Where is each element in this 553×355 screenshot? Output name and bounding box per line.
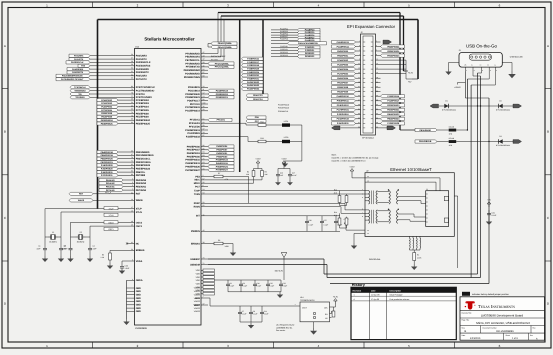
svg-text:41: 41 bbox=[131, 241, 133, 244]
svg-text:50: 50 bbox=[203, 201, 205, 204]
wire VDD bus bbox=[214, 279, 281, 281]
svg-text:VDD33: VDD33 bbox=[194, 307, 200, 310]
MCU port B pins bbox=[97, 150, 154, 178]
svg-text:PC5EPI0S3: PC5EPI0S3 bbox=[337, 63, 349, 66]
svg-text:PH1EPI0S7: PH1EPI0S7 bbox=[216, 149, 228, 152]
svg-text:PB0USB0ID: PB0USB0ID bbox=[419, 129, 431, 132]
wire bus vertical D bbox=[239, 20, 241, 173]
svg-text:PJ0EPI0S16: PJ0EPI0S16 bbox=[247, 58, 260, 61]
svg-text:R1: R1 bbox=[417, 254, 419, 257]
svg-text:36: 36 bbox=[203, 105, 205, 108]
svg-text:GND: GND bbox=[136, 304, 141, 307]
svg-text:PWRDN: PWRDN bbox=[191, 230, 200, 233]
wire choke1 to RJ45 bbox=[398, 196, 426, 203]
svg-text:GND: GND bbox=[136, 297, 141, 300]
svg-text:+3.3V: +3.3V bbox=[281, 158, 287, 161]
svg-text:PH6/EPI0S26: PH6/EPI0S26 bbox=[185, 165, 200, 168]
svg-text:98: 98 bbox=[203, 75, 205, 78]
svg-text:LM3S9B96: LM3S9B96 bbox=[135, 327, 147, 330]
wire USB shield left bbox=[449, 63, 460, 70]
svg-text:PC4/EPI0S2: PC4/EPI0S2 bbox=[136, 99, 150, 102]
svg-text:0.1UF: 0.1UF bbox=[257, 285, 262, 288]
svg-text:70: 70 bbox=[203, 257, 205, 260]
svg-text:R10: R10 bbox=[334, 189, 337, 192]
power flag MA+3.3V bbox=[275, 253, 287, 281]
decoupling capacitors C6 C8 C10 C12 C13 bbox=[226, 280, 287, 292]
resistor R13 bbox=[208, 137, 282, 143]
grid column numbers bottom bbox=[46, 344, 501, 348]
svg-text:2.2UF: 2.2UF bbox=[283, 285, 288, 288]
ground USB right bbox=[508, 71, 516, 78]
wire RX pair to ethernet bbox=[208, 203, 365, 213]
svg-text:PH1EPI0S7: PH1EPI0S7 bbox=[337, 81, 349, 84]
svg-text:97: 97 bbox=[203, 71, 205, 74]
svg-text:PE6/MII0CRS: PE6/MII0CRS bbox=[185, 56, 200, 59]
wire MDC bbox=[208, 179, 262, 181]
net flag cluster above EPI bbox=[271, 27, 320, 42]
net flags EPI right top bbox=[381, 45, 405, 57]
svg-text:PF4/MII0RXD: PF4/MII0RXD bbox=[185, 62, 200, 65]
svg-text:PI6A/AC9/USBEPI29: PI6A/AC9/USBEPI29 bbox=[298, 42, 319, 45]
wire risers to top bus bbox=[208, 13, 224, 61]
svg-text:GND: GND bbox=[136, 307, 141, 310]
svg-text:PH3EPI0S0: PH3EPI0S0 bbox=[216, 155, 228, 158]
svg-text:PH2EPI0S1: PH2EPI0S1 bbox=[216, 152, 228, 155]
svg-text:B: B bbox=[4, 130, 6, 134]
svg-text:15PF: 15PF bbox=[36, 247, 40, 250]
svg-text:27: 27 bbox=[131, 57, 133, 60]
svg-text:PE0EPI0S8: PE0EPI0S8 bbox=[337, 86, 349, 89]
svg-text:PG2EPI0S32: PG2EPI0S32 bbox=[247, 81, 260, 84]
svg-text:VDD: VDD bbox=[196, 279, 201, 282]
svg-text:PA5/SSI0TX: PA5/SSI0TX bbox=[136, 71, 149, 74]
svg-text:RST: RST bbox=[136, 193, 141, 196]
svg-text:GND: GND bbox=[136, 310, 141, 313]
svg-text:indicates factory-default jump: indicates factory-default jumper positio… bbox=[472, 293, 510, 296]
svg-text:PE3: PE3 bbox=[195, 175, 200, 178]
svg-text:PA3/SSI0FSS: PA3/SSI0FSS bbox=[136, 65, 151, 68]
MCU ethernet phy pins group1 bbox=[184, 51, 208, 79]
svg-text:C4: C4 bbox=[93, 245, 95, 248]
page arrow diode row1 left bbox=[430, 104, 439, 108]
ESD diode row 1 bbox=[439, 105, 518, 107]
svg-text:PA4/SSI0RX: PA4/SSI0RX bbox=[136, 68, 150, 71]
svg-text:53: 53 bbox=[203, 192, 205, 195]
svg-text:PG4EPI0S34: PG4EPI0S34 bbox=[247, 88, 260, 91]
svg-text:USB On-the-Go: USB On-the-Go bbox=[466, 43, 498, 48]
page arrow EPI right bottom bbox=[381, 126, 396, 130]
svg-text:PJ7EPI0S31: PJ7EPI0S31 bbox=[101, 174, 114, 177]
resistor R14 R15 bbox=[334, 211, 348, 228]
svg-text:PE6AIN1: PE6AIN1 bbox=[106, 185, 115, 188]
svg-text:B: B bbox=[465, 330, 467, 333]
ground for C19 bbox=[119, 268, 125, 274]
jumper note bbox=[462, 292, 510, 296]
svg-text:PB7/NMI: PB7/NMI bbox=[136, 174, 146, 177]
ground C1 bbox=[42, 256, 48, 262]
svg-text:Y1: Y1 bbox=[52, 231, 54, 234]
svg-text:EPI Expansion Connector: EPI Expansion Connector bbox=[347, 24, 396, 29]
svg-text:7: 7 bbox=[203, 296, 204, 299]
svg-text:2: 2 bbox=[132, 184, 133, 187]
svg-text:PD5/MII0TXEN: PD5/MII0TXEN bbox=[184, 76, 200, 79]
wire EPI right power rows bbox=[381, 60, 414, 83]
ground LEDs bbox=[282, 161, 288, 167]
svg-text:PC7EPI0S5: PC7EPI0S5 bbox=[337, 72, 349, 75]
svg-text:PB3/I2C0SDA: PB3/I2C0SDA bbox=[136, 161, 151, 164]
svg-text:DK-LM3S9B96: DK-LM3S9B96 bbox=[496, 330, 514, 333]
net flags above MCU right bbox=[208, 42, 237, 49]
wire bus vertical E bbox=[262, 20, 264, 96]
svg-text:PJ1EPI0S17: PJ1EPI0S17 bbox=[247, 61, 260, 64]
svg-text:PA2SSI0CLK: PA2SSI0CLK bbox=[71, 61, 84, 64]
svg-text:PC4EPI0S2: PC4EPI0S2 bbox=[101, 99, 113, 102]
wire USB shield right bbox=[502, 63, 512, 72]
svg-text:43: 43 bbox=[203, 54, 205, 57]
svg-text:XTLP: XTLP bbox=[109, 207, 114, 210]
svg-text:PJ2/EPI0S18: PJ2/EPI0S18 bbox=[186, 136, 201, 139]
TI logo bbox=[465, 301, 476, 309]
svg-text:28: 28 bbox=[131, 60, 133, 63]
svg-text:Y2: Y2 bbox=[79, 231, 81, 234]
power +5V C31 bbox=[487, 199, 491, 208]
capacitor C26 C27 C28 bbox=[305, 216, 342, 232]
svg-text:8: 8 bbox=[203, 184, 204, 187]
svg-text:INT: INT bbox=[196, 215, 200, 218]
svg-text:PB5EPI0S19: PB5EPI0S19 bbox=[101, 154, 114, 157]
ground C31 bbox=[486, 219, 492, 225]
svg-text:PG0/EPI0S13: PG0/EPI0S13 bbox=[185, 129, 200, 132]
svg-text:PJ5EPI0S30: PJ5EPI0S30 bbox=[337, 122, 350, 125]
wire LDO bus to U14 bbox=[210, 303, 300, 306]
svg-text:12: 12 bbox=[203, 92, 205, 95]
svg-text:WAKE: WAKE bbox=[136, 199, 143, 202]
net flags port E bbox=[99, 178, 123, 191]
LED D5 bbox=[282, 120, 302, 127]
svg-text:PG1/EPI0S14: PG1/EPI0S14 bbox=[185, 110, 200, 113]
op-amp U1 microcontroller block U1a bbox=[135, 45, 202, 329]
svg-text:+VBUS: +VBUS bbox=[454, 86, 461, 89]
svg-text:11: 11 bbox=[203, 88, 205, 91]
wire bus top line A bbox=[218, 13, 418, 131]
svg-text:B/TVSDIODE0404: B/TVSDIODE0404 bbox=[496, 144, 510, 147]
svg-text:D4: D4 bbox=[499, 135, 501, 138]
svg-text:PF4EPI0S12: PF4EPI0S12 bbox=[337, 104, 350, 107]
svg-text:PE5ACQ3WBL: PE5ACQ3WBL bbox=[218, 46, 233, 49]
wire OSC1 to Y2 bbox=[90, 225, 128, 227]
svg-text:EPI breakout: EPI breakout bbox=[362, 137, 374, 140]
grid row letters right bbox=[547, 44, 550, 306]
power +3.3V pullups bbox=[254, 158, 263, 169]
net flag PB1USB0VBUS bbox=[415, 140, 449, 143]
svg-text:VDD33: VDD33 bbox=[194, 300, 200, 303]
svg-text:PC5EPI0S3: PC5EPI0S3 bbox=[101, 102, 113, 105]
capacitor C1 bbox=[36, 237, 47, 256]
MCU JTAG pins bbox=[90, 85, 155, 99]
svg-text:PH3EPI0S0: PH3EPI0S0 bbox=[337, 50, 349, 53]
svg-text:C16: C16 bbox=[280, 172, 283, 175]
net flags port B lower bbox=[97, 164, 118, 177]
svg-text:36: 36 bbox=[131, 248, 133, 251]
svg-text:PF5/MII0TXD: PF5/MII0TXD bbox=[186, 66, 200, 69]
svg-text:A0: A0 bbox=[325, 317, 327, 320]
capacitor C19 bbox=[120, 265, 130, 271]
svg-text:26: 26 bbox=[131, 53, 133, 56]
svg-text:C9: C9 bbox=[253, 310, 255, 313]
svg-text:Drawing Title:: Drawing Title: bbox=[462, 311, 473, 314]
svg-text:R7: R7 bbox=[218, 172, 220, 175]
svg-text:TCKSWCLK: TCKSWCLK bbox=[74, 86, 86, 89]
svg-text:TX0P: TX0P bbox=[194, 189, 200, 192]
svg-text:U2: U2 bbox=[366, 170, 368, 173]
svg-text:5: 5 bbox=[132, 181, 133, 184]
svg-text:PE0EPI0S8: PE0EPI0S8 bbox=[101, 112, 113, 115]
svg-text:PD3/EPI0S21: PD3/EPI0S21 bbox=[185, 96, 200, 99]
power +3.3V U14 bbox=[333, 296, 339, 305]
svg-text:PD6/MACLK: PD6/MACLK bbox=[278, 110, 289, 113]
svg-text:PA1/U0TX: PA1/U0TX bbox=[136, 58, 147, 61]
svg-text:C17: C17 bbox=[292, 172, 295, 175]
svg-text:87: 87 bbox=[203, 134, 205, 137]
center tap choke bundle bbox=[410, 236, 421, 252]
svg-text:70: 70 bbox=[131, 156, 133, 159]
wire choke2 to RJ45 bbox=[398, 214, 426, 221]
svg-text:PE3EPI0S25: PE3EPI0S25 bbox=[387, 50, 400, 53]
wire ethernet led rows bbox=[365, 175, 440, 191]
svg-text:Size: Size bbox=[462, 326, 465, 329]
svg-text:C27: C27 bbox=[324, 219, 327, 222]
svg-text:PA5SSI0TX: PA5SSI0TX bbox=[72, 71, 84, 74]
svg-text:C10: C10 bbox=[257, 282, 260, 285]
svg-text:Rev: Rev bbox=[530, 334, 533, 337]
svg-text:PJ0EPI0S16: PJ0EPI0S16 bbox=[387, 95, 400, 98]
svg-text:PE7/MII0COL: PE7/MII0COL bbox=[185, 59, 200, 62]
svg-text:PJ5EPI0S30: PJ5EPI0S30 bbox=[247, 74, 260, 77]
svg-text:PE5AIN2: PE5AIN2 bbox=[106, 182, 115, 185]
svg-text:56: 56 bbox=[203, 181, 205, 184]
svg-text:C3: C3 bbox=[64, 245, 66, 248]
wire USB DP rail bbox=[208, 73, 478, 274]
svg-text:49.9: 49.9 bbox=[334, 192, 337, 195]
crystal Y1 bbox=[45, 209, 61, 244]
svg-text:PF5ACQ1WBL: PF5ACQ1WBL bbox=[215, 66, 230, 69]
svg-text:PC6/EPI0S4: PC6/EPI0S4 bbox=[136, 106, 150, 109]
MCU misc pins rows bbox=[191, 213, 340, 233]
svg-text:XTLN: XTLN bbox=[136, 211, 142, 214]
svg-text:PH4/EPI0S10: PH4/EPI0S10 bbox=[185, 159, 200, 162]
svg-text:LED0: LED0 bbox=[284, 136, 289, 139]
svg-text:PH7/EPI0S27: PH7/EPI0S27 bbox=[185, 169, 200, 172]
svg-text:PD2EPI0S20: PD2EPI0S20 bbox=[387, 104, 400, 107]
svg-text:PB0/USB0ID: PB0/USB0ID bbox=[136, 151, 150, 154]
svg-text:Page Title:: Page Title: bbox=[462, 319, 471, 322]
svg-text:C26: C26 bbox=[309, 219, 312, 222]
svg-text:99: 99 bbox=[203, 98, 205, 101]
svg-text:31: 31 bbox=[131, 70, 133, 73]
svg-text:PG7EPI0S31: PG7EPI0S31 bbox=[337, 109, 350, 112]
wire bus top line C bbox=[98, 20, 419, 209]
svg-text:First production release: First production release bbox=[390, 298, 410, 301]
svg-text:16.0MHz: 16.0MHz bbox=[49, 241, 57, 244]
resistor R10 R11 bbox=[334, 189, 348, 206]
svg-text:Install R1 = 0 Ohm for LM3S9B9: Install R1 = 0 Ohm for LM3S9B96 Rev C bbox=[332, 160, 367, 163]
wire U14 output bbox=[330, 304, 336, 318]
svg-text:Ethernet 10/100baseT: Ethernet 10/100baseT bbox=[390, 167, 432, 172]
ethernet module box bbox=[365, 170, 454, 237]
svg-text:PJ1EPI30: PJ1EPI30 bbox=[280, 45, 288, 48]
wire XTLN to Y1 bbox=[61, 212, 128, 237]
svg-text:PG3EPI25: PG3EPI25 bbox=[280, 30, 288, 33]
svg-text:6: 6 bbox=[132, 178, 133, 181]
wire GND bus left bbox=[126, 280, 128, 319]
svg-text:PD2/EPI0S20: PD2/EPI0S20 bbox=[185, 93, 200, 96]
capacitor C2 bbox=[59, 237, 68, 256]
svg-text:17: 17 bbox=[131, 206, 133, 209]
svg-text:0.1UF: 0.1UF bbox=[242, 313, 247, 316]
svg-text:PE4AIN3: PE4AIN3 bbox=[106, 179, 115, 182]
ground U14 bbox=[310, 322, 317, 335]
MCU hibernate pin bbox=[93, 198, 143, 202]
svg-text:C11: C11 bbox=[264, 310, 267, 313]
net flag PB0USB0ID bbox=[415, 128, 449, 131]
wire LED ground bbox=[285, 125, 302, 161]
svg-text:13: 13 bbox=[203, 95, 205, 98]
connector J3 USB body bbox=[459, 49, 503, 67]
capacitors C7 C9 C11 row2 bbox=[238, 306, 268, 322]
svg-text:VDD33: VDD33 bbox=[194, 293, 200, 296]
svg-text:PE2EPI0S24: PE2EPI0S24 bbox=[101, 119, 114, 122]
svg-text:PE6/AIN1: PE6/AIN1 bbox=[136, 186, 147, 189]
ground R5 bbox=[107, 263, 113, 269]
svg-text:PH5EPI0S11: PH5EPI0S11 bbox=[337, 100, 350, 103]
crystal Y2 bbox=[70, 223, 90, 244]
net flag RST bbox=[69, 192, 93, 195]
MCU USB data pins bbox=[190, 257, 208, 267]
svg-text:17 Apr 09: 17 Apr 09 bbox=[371, 298, 379, 301]
wire USB gnd vertical bbox=[470, 85, 472, 278]
ground R6 bbox=[230, 250, 236, 256]
svg-text:MDC: MDC bbox=[194, 179, 200, 182]
svg-text:VDD33: VDD33 bbox=[194, 290, 200, 293]
resistor R2 pullup bbox=[246, 169, 255, 177]
svg-text:PA2/SSI0CLK: PA2/SSI0CLK bbox=[136, 61, 151, 64]
svg-text:Document Number: Document Number bbox=[483, 326, 498, 329]
svg-text:Date:: Date: bbox=[462, 334, 467, 337]
svg-text:PJ5EPI0S29: PJ5EPI0S29 bbox=[101, 168, 114, 171]
ground VDD caps bbox=[277, 292, 283, 298]
MCU osc pins OSC0 OSC1 bbox=[71, 220, 143, 231]
svg-text:PG0EPI0S13: PG0EPI0S13 bbox=[337, 41, 350, 44]
svg-text:PG1EPI0S14: PG1EPI0S14 bbox=[337, 45, 350, 48]
svg-text:25: 25 bbox=[131, 98, 133, 101]
MCU EPI pins group4 bbox=[185, 144, 208, 172]
svg-text:PH1/EPI0S7: PH1/EPI0S7 bbox=[187, 149, 201, 152]
svg-text:PB5/EPI0S22: PB5/EPI0S22 bbox=[136, 168, 151, 171]
svg-text:See errata.: See errata. bbox=[276, 329, 286, 332]
svg-text:41: 41 bbox=[203, 213, 205, 216]
svg-text:RST: RST bbox=[79, 193, 84, 196]
svg-text:49: 49 bbox=[131, 224, 133, 227]
svg-text:PJ2EPI0S18: PJ2EPI0S18 bbox=[247, 64, 260, 67]
net flag WAKE bbox=[69, 199, 93, 202]
net flag cluster above EPI lower bbox=[271, 45, 320, 58]
svg-text:GND: GND bbox=[136, 294, 141, 297]
svg-text:PB1USB0VB: PB1USB0VB bbox=[419, 140, 432, 143]
svg-text:C8: C8 bbox=[243, 282, 245, 285]
ground C7 C9 C11 bbox=[248, 323, 254, 329]
svg-text:C1: C1 bbox=[38, 245, 40, 248]
svg-text:100: 100 bbox=[203, 102, 206, 105]
MCU port E pins bbox=[100, 178, 147, 192]
svg-text:GNDA: GNDA bbox=[136, 279, 143, 282]
svg-text:96: 96 bbox=[131, 121, 133, 124]
net flags EPI right bottom bbox=[381, 95, 405, 126]
connector J2 body bbox=[361, 31, 376, 135]
svg-text:PF0/MII0RXD: PF0/MII0RXD bbox=[185, 52, 200, 55]
svg-text:PA0/U0RX: PA0/U0RX bbox=[136, 55, 148, 58]
svg-text:PB5EPI0S22: PB5EPI0S22 bbox=[387, 113, 400, 116]
svg-text:0.1UF: 0.1UF bbox=[309, 223, 314, 226]
svg-text:30: 30 bbox=[131, 67, 133, 70]
svg-text:RX0N: RX0N bbox=[194, 206, 201, 209]
svg-text:PB4EPI0S18: PB4EPI0S18 bbox=[101, 151, 114, 154]
svg-text:84: 84 bbox=[203, 151, 205, 154]
svg-text:49.9: 49.9 bbox=[334, 214, 337, 217]
svg-text:U14 Required only for: U14 Required only for bbox=[276, 324, 295, 327]
MCU ADC pin resistor R7 bbox=[195, 172, 248, 203]
power +3.3V ethernet ct bbox=[343, 218, 368, 232]
svg-text:VDD: VDD bbox=[196, 276, 201, 279]
wire bus top line B bbox=[221, 16, 408, 71]
page arrow EPI right top bbox=[383, 40, 392, 44]
svg-text:34: 34 bbox=[203, 131, 205, 134]
LED D6 bbox=[282, 136, 302, 143]
transformer T2 primary bbox=[362, 208, 377, 224]
svg-text:GND: GND bbox=[136, 290, 141, 293]
grid column numbers top bbox=[46, 3, 501, 7]
svg-text:GND: GND bbox=[136, 287, 141, 290]
svg-text:PC7/EPI0S5: PC7/EPI0S5 bbox=[136, 109, 150, 112]
svg-text:64: 64 bbox=[131, 191, 133, 194]
svg-text:PH7EPI0S27: PH7EPI0S27 bbox=[216, 169, 229, 172]
svg-text:USB Micro AB: USB Micro AB bbox=[510, 56, 523, 59]
svg-text:D1: D1 bbox=[445, 100, 447, 103]
net flag PA6 long bbox=[271, 42, 327, 45]
svg-text:PC6EPI0S4: PC6EPI0S4 bbox=[337, 68, 349, 71]
page arrow diode row2 right bbox=[513, 140, 522, 144]
svg-text:57: 57 bbox=[203, 177, 205, 180]
capacitor C31 bbox=[487, 210, 497, 219]
svg-text:MA+3.3V: MA+3.3V bbox=[275, 270, 284, 273]
svg-text:MDIO: MDIO bbox=[194, 182, 200, 185]
svg-text:PH0/EPI0S6: PH0/EPI0S6 bbox=[187, 145, 201, 148]
svg-text:90: 90 bbox=[131, 170, 133, 173]
svg-text:PE3EPI33: PE3EPI33 bbox=[280, 54, 288, 57]
wire USB ID vertical bbox=[466, 79, 468, 130]
U14 errata note bbox=[276, 324, 295, 333]
svg-text:PE5/AIN2: PE5/AIN2 bbox=[136, 182, 147, 185]
svg-text:RX0P: RX0P bbox=[194, 202, 201, 205]
svg-text:LM3S9B96 Rev B1.: LM3S9B96 Rev B1. bbox=[276, 326, 293, 329]
svg-text:TPS3803-01DCK: TPS3803-01DCK bbox=[300, 299, 315, 302]
svg-text:PH5/EPI0S11: PH5/EPI0S11 bbox=[186, 162, 201, 165]
EPI left pin stubs bbox=[356, 40, 361, 129]
svg-text:+3.3V: +3.3V bbox=[333, 296, 339, 299]
svg-text:PD1/AIN14: PD1/AIN14 bbox=[188, 89, 200, 92]
MCU inside labels bottom bbox=[194, 287, 200, 313]
transformer T1 primary bbox=[362, 188, 377, 204]
svg-text:Rev: Rev bbox=[533, 326, 536, 329]
